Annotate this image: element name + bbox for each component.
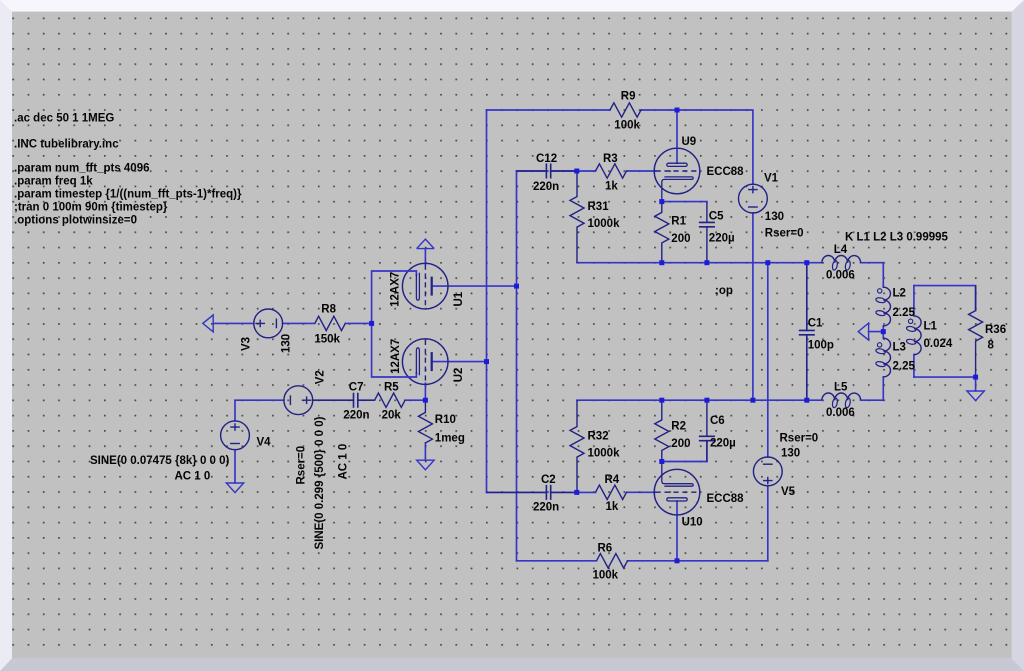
svg-text:R5: R5: [384, 381, 399, 393]
label 220u C6: [710, 438, 736, 450]
svg-text:130: 130: [781, 448, 800, 460]
label R10: [435, 414, 456, 426]
resistor R4: [596, 485, 627, 499]
label R6: [598, 543, 613, 555]
junction node C5-bus1: [704, 260, 709, 265]
junction node U10 plate-R6: [675, 558, 680, 563]
svg-text:.ac dec 50 1 1MEG: .ac dec 50 1 1MEG: [14, 113, 114, 125]
wire U9 plate lead: [676, 110, 678, 163]
junction node transformer center tap: [881, 329, 886, 334]
svg-text:1000k: 1000k: [588, 448, 621, 460]
wire V1 bottom down across bus to lower bus: [752, 213, 754, 400]
label U1: [453, 291, 465, 306]
svg-text:AC 1 0: AC 1 0: [175, 471, 211, 483]
wire lower bus2: [577, 399, 822, 401]
label 1meg: [435, 432, 465, 444]
wire U2 grid lead: [424, 383, 426, 400]
label U10: [682, 517, 703, 529]
svg-text:130: 130: [765, 211, 784, 223]
svg-text:U9: U9: [682, 136, 697, 148]
wire grid node to U1 plate riser: [371, 271, 373, 377]
label R2: [671, 421, 686, 433]
label 200 R2: [671, 438, 690, 450]
svg-text:L5: L5: [834, 382, 848, 394]
svg-text:12AX7: 12AX7: [390, 339, 402, 374]
label 1k R4: [606, 501, 619, 513]
label K coupling statement: [845, 231, 949, 243]
label AC 1 0 V2: [337, 444, 349, 480]
wire L5 to L3 corner: [861, 399, 884, 401]
svg-text:V2: V2: [315, 370, 327, 384]
svg-text:C2: C2: [541, 474, 556, 486]
label R9: [621, 91, 636, 103]
svg-text:0.006: 0.006: [826, 269, 855, 281]
wire U10 plate lead: [676, 501, 678, 561]
label 0.024 L1: [924, 338, 953, 350]
voltage source V4: [221, 421, 250, 450]
ground transformer center tap: [858, 323, 868, 340]
ground above U1: [417, 239, 435, 249]
label 100k R6: [593, 570, 619, 582]
label R3: [603, 153, 618, 165]
label R1: [671, 215, 686, 227]
triode U9 ECC88: [654, 148, 700, 201]
svg-text:C6: C6: [710, 415, 725, 427]
junction node U1 cathode-line B: [514, 284, 519, 289]
wire L2 bottom to center tap: [882, 326, 884, 338]
svg-text:R6: R6: [598, 543, 613, 555]
svg-text:.INC tubelibrary.inc: .INC tubelibrary.inc: [14, 139, 119, 151]
label 150k: [314, 333, 340, 345]
label AC 1 0 V4: [175, 471, 211, 483]
junction node R36-ground: [973, 375, 978, 380]
svg-text:V4: V4: [257, 437, 272, 449]
label 12AX7 U1: [390, 272, 402, 307]
wire R3 to U9 grid: [627, 170, 656, 172]
label 1000k R31: [588, 218, 621, 230]
svg-text:SINE(0 0.07475 {8k} 0 0 0): SINE(0 0.07475 {8k} 0 0 0): [90, 455, 230, 467]
inductor L5: [822, 393, 861, 408]
label 130 V1: [765, 211, 784, 223]
capacitor C2: [487, 485, 577, 500]
label V3: [241, 337, 253, 351]
svg-text:200: 200: [671, 438, 690, 450]
wire transformer center tap to ground: [869, 331, 884, 333]
svg-text:2.25: 2.25: [893, 361, 916, 373]
svg-text:R36: R36: [985, 324, 1006, 336]
label V5: [781, 486, 796, 498]
label U9: [682, 136, 697, 148]
label R32: [588, 431, 609, 443]
wire U10 cathode junction to C6: [662, 461, 707, 463]
label 2.25 L3: [893, 361, 916, 373]
resistor R6: [597, 554, 628, 568]
wire V5 bottom to R6 line: [767, 486, 769, 561]
wire upper bus1: [577, 262, 822, 264]
svg-text:;tran 0 100m 90m {timestep}: ;tran 0 100m 90m {timestep}: [14, 202, 168, 214]
directive ;tran: [14, 202, 168, 214]
wire C12 left lead: [517, 170, 547, 172]
svg-text:12AX7: 12AX7: [390, 272, 402, 307]
voltage source V3: [254, 309, 283, 338]
junction node C6-bus2: [704, 398, 709, 403]
svg-text:.param freq 1k: .param freq 1k: [14, 176, 93, 188]
label C1: [808, 318, 823, 330]
wire C1 top lead: [806, 263, 808, 331]
svg-text:K L1 L2 L3 0.99995: K L1 L2 L3 0.99995: [845, 231, 949, 243]
capacitor C7: [313, 393, 375, 408]
svg-text:R31: R31: [588, 201, 610, 213]
capacitor C6: [699, 400, 715, 461]
triode U1 12AX7: [372, 263, 448, 309]
svg-text:R4: R4: [605, 474, 620, 486]
svg-text:SINE(0 0.299 {500} 0 0 0): SINE(0 0.299 {500} 0 0 0): [314, 416, 326, 549]
svg-text:R9: R9: [621, 91, 636, 103]
svg-text:ECC88: ECC88: [707, 493, 745, 505]
svg-text:V5: V5: [781, 486, 796, 498]
label 100p: [808, 340, 834, 352]
svg-text:U2: U2: [453, 368, 465, 383]
directive .INC: [14, 139, 119, 151]
label 1k: [605, 180, 618, 192]
label L1: [924, 321, 938, 333]
label Rser=0 V2: [295, 446, 307, 485]
resistor R36: [969, 286, 983, 378]
label L5: [834, 382, 848, 394]
label R36: [985, 324, 1006, 336]
wire L3 bottom to bus2 corner: [882, 377, 884, 400]
wire R6 to V5 corner: [628, 560, 768, 562]
svg-text:.options plotwinsize=0: .options plotwinsize=0: [14, 215, 137, 227]
wire R5 to input node: [405, 399, 425, 401]
resistor R32: [570, 400, 584, 492]
wire V5 top lead from bus1: [767, 263, 769, 457]
wire line A bottom to C2: [487, 491, 547, 493]
svg-text:L2: L2: [893, 288, 906, 300]
wire vertical net line A (left tall wire): [486, 110, 488, 492]
svg-text:C7: C7: [349, 381, 364, 393]
wire V2 to C7: [313, 399, 354, 401]
svg-text:R1: R1: [671, 215, 686, 227]
junction node U2 cathode-line A: [484, 359, 489, 364]
label R5: [384, 381, 399, 393]
capacitor C12: [517, 164, 577, 179]
svg-text:ECC88: ECC88: [707, 166, 745, 178]
svg-text:AC 1 0: AC 1 0: [337, 444, 349, 480]
label ECC88 U10: [707, 493, 745, 505]
inductor L2: [875, 287, 890, 326]
svg-text:150k: 150k: [314, 333, 340, 345]
svg-text:L1: L1: [924, 321, 938, 333]
svg-text:Rser=0: Rser=0: [765, 228, 804, 240]
label C12: [536, 153, 557, 165]
directive .ac: [14, 113, 114, 125]
svg-text:;op: ;op: [715, 285, 733, 297]
wire C2 right to junction to R4: [551, 491, 596, 493]
label U2: [453, 368, 465, 383]
wire L1 top lead: [913, 286, 915, 316]
wire C7 to R5: [358, 399, 375, 401]
label R8: [321, 303, 336, 315]
svg-text:8: 8: [988, 340, 995, 352]
wire U9 cathode junction to C5: [662, 201, 707, 203]
triode U10 ECC88: [654, 462, 700, 515]
label Rser=0 V1: [765, 228, 804, 240]
label C7: [349, 381, 364, 393]
svg-text:V1: V1: [764, 173, 779, 185]
svg-text:C5: C5: [709, 210, 724, 222]
svg-text:R8: R8: [321, 303, 336, 315]
directive .options: [14, 215, 137, 227]
junction node R1-bus1: [659, 260, 664, 265]
ground below R10: [417, 460, 434, 470]
resistor R9: [610, 103, 641, 117]
junction node U10 cathode: [659, 459, 664, 464]
wire C12 right to junction to R3: [551, 170, 596, 172]
label 220n C12: [533, 181, 559, 193]
label C2: [541, 474, 556, 486]
label V4: [257, 437, 272, 449]
resistor R3: [596, 164, 627, 178]
wire R8 to grid node: [345, 322, 371, 324]
svg-text:130: 130: [281, 334, 293, 353]
svg-text:R10: R10: [435, 414, 456, 426]
label SINE V2: [314, 416, 326, 549]
junction node U9 cathode: [659, 199, 664, 204]
svg-text:C12: C12: [536, 153, 557, 165]
inductor L4: [822, 256, 861, 271]
resistor R5: [375, 393, 406, 407]
svg-text:1000k: 1000k: [588, 218, 621, 230]
label R4: [605, 474, 620, 486]
voltage source V1: [739, 184, 768, 213]
ground left of V3: [203, 315, 213, 332]
capacitor C5: [699, 202, 715, 263]
svg-text:U1: U1: [453, 291, 465, 306]
svg-text:220µ: 220µ: [710, 438, 736, 450]
svg-text:1k: 1k: [606, 501, 619, 513]
label 130 V3: [281, 334, 293, 353]
label 0.006 L5: [826, 407, 855, 419]
svg-text:U10: U10: [682, 517, 703, 529]
wire R36 bottom loop: [914, 376, 976, 378]
wire R36 ground lead: [975, 377, 977, 391]
voltage source V2: [284, 386, 313, 415]
svg-text:2.25: 2.25: [893, 307, 916, 319]
label 220n C2: [533, 502, 559, 514]
wire U1 cathode to line B: [433, 285, 517, 287]
label 20k: [382, 410, 402, 422]
wire top bus from node A to R9: [487, 109, 611, 111]
label SINE V4: [90, 455, 230, 467]
svg-text:200: 200: [671, 233, 690, 245]
wire L1 top to R36 top: [914, 286, 976, 311]
svg-text:V3: V3: [241, 337, 253, 351]
svg-text:R32: R32: [588, 431, 609, 443]
inductor L1: [906, 316, 921, 355]
label 1000k R32: [588, 448, 621, 460]
wire V3 ground to V3: [213, 322, 254, 324]
junction node R2-bus2: [659, 398, 664, 403]
svg-text:20k: 20k: [382, 410, 402, 422]
label ECC88 U9: [707, 166, 745, 178]
label 8: [988, 340, 995, 352]
svg-text:1meg: 1meg: [435, 432, 465, 444]
junction node R5-R10-U2 grid: [423, 398, 428, 403]
junction node V1 feed-bus2: [750, 398, 755, 403]
label C6: [710, 415, 725, 427]
junction node V5 feed-bus1: [765, 260, 770, 265]
capacitor C1: [799, 263, 815, 401]
junction node R9-U9 plate: [675, 108, 680, 113]
svg-text:100k: 100k: [614, 120, 640, 132]
label L2: [893, 288, 906, 300]
directive .param freq: [14, 176, 93, 188]
svg-text:220µ: 220µ: [709, 232, 735, 244]
svg-text:Rser=0: Rser=0: [295, 446, 307, 485]
label R31: [588, 201, 610, 213]
svg-text:0.024: 0.024: [924, 338, 953, 350]
svg-text:C1: C1: [808, 318, 823, 330]
junction node C1-bus1: [804, 260, 809, 265]
wire V3 to R8: [283, 322, 315, 324]
svg-text:1k: 1k: [605, 180, 618, 192]
resistor R1: [655, 202, 669, 263]
ground below V4: [226, 483, 243, 493]
junction node C1-bus2: [804, 398, 809, 403]
ground below R36: [967, 391, 984, 401]
label C5: [709, 210, 724, 222]
svg-text:R2: R2: [671, 421, 686, 433]
label 0.006 L4: [826, 269, 855, 281]
label V1: [764, 173, 779, 185]
svg-text:Rser=0: Rser=0: [780, 433, 819, 445]
wire R6 line: [517, 560, 597, 562]
svg-text:0.006: 0.006: [826, 407, 855, 419]
wire R9 to V1 top with corner: [641, 110, 753, 184]
label Rser=0 V5: [780, 433, 819, 445]
wire C6 bottom lead: [706, 441, 708, 462]
resistor R31: [570, 171, 584, 263]
label V2: [315, 370, 327, 384]
wire R4 to U10 grid: [627, 491, 656, 493]
wire L1 bottom lead: [913, 355, 915, 378]
junction node C2-R4-R32: [574, 490, 579, 495]
svg-text:220n: 220n: [533, 502, 559, 514]
wire vertical net line B (C12 to R6 line): [516, 171, 518, 561]
resistor R10: [418, 400, 432, 443]
directive .param num_fft_pts: [14, 163, 150, 175]
svg-text:.param num_fft_pts 4096: .param num_fft_pts 4096: [14, 163, 150, 175]
svg-text:220n: 220n: [533, 181, 559, 193]
wire bus1 L4 to L2 corner: [861, 263, 884, 288]
resistor R2: [655, 400, 669, 461]
label 100k: [614, 120, 640, 132]
label 130 V5: [781, 448, 800, 460]
directive .param timestep: [14, 189, 242, 201]
svg-text:R3: R3: [603, 153, 618, 165]
wire U2 cathode to line A: [433, 361, 487, 363]
resistor R8: [315, 316, 346, 330]
svg-text:100k: 100k: [593, 570, 619, 582]
wire C1 bottom lead: [806, 335, 808, 400]
wire V4 bottom to ground: [234, 450, 236, 483]
inductor L3: [875, 338, 890, 377]
label 220n C7: [343, 410, 369, 422]
triode U2 12AX7: [372, 339, 448, 385]
wire U1 grid stem to ground arrow: [424, 249, 426, 265]
label L4: [834, 244, 848, 256]
label L3: [893, 342, 906, 354]
label ;op: [715, 285, 733, 297]
junction node R8-U1-U2 grids: [369, 321, 374, 326]
svg-text:L4: L4: [834, 244, 848, 256]
svg-text:100p: 100p: [808, 340, 834, 352]
wire R10 ground lead: [424, 443, 426, 460]
voltage source V5: [753, 457, 782, 486]
wire V4 top to V2: [235, 400, 284, 421]
junction node C12-R3-R31: [574, 169, 579, 174]
svg-text:L3: L3: [893, 342, 906, 354]
label 2.25 L2: [893, 307, 916, 319]
label 200 R1: [671, 233, 690, 245]
label 12AX7 U2: [390, 339, 402, 374]
label 220u C5: [709, 232, 735, 244]
svg-text:220n: 220n: [343, 410, 369, 422]
svg-text:.param timestep {1/((num_fft_p: .param timestep {1/((num_fft_pts-1)*freq…: [14, 189, 242, 201]
